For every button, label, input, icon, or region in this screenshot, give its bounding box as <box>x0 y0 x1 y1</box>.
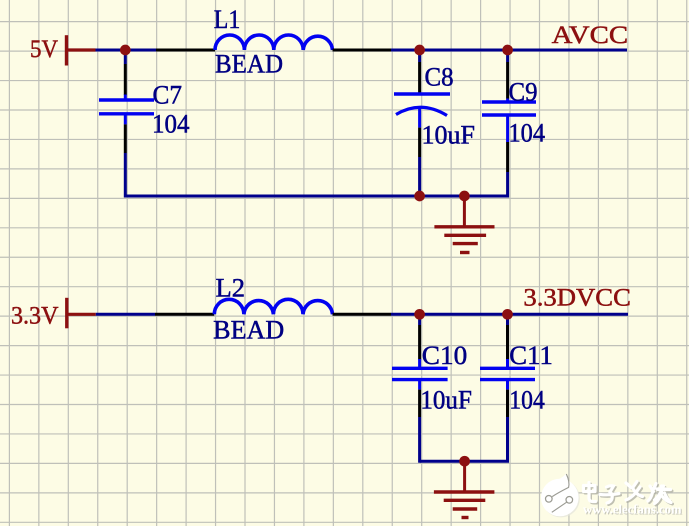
wire C9 to bottom rail <box>125 172 507 196</box>
power port 5V stub wire <box>67 48 96 51</box>
svg-text:C10: C10 <box>422 341 467 370</box>
capacitor C11 pin 1 <box>506 325 509 360</box>
capacitor C7 body <box>99 95 154 125</box>
node junction C8 tap <box>414 45 425 56</box>
wire 3.3V to L2 <box>96 313 155 316</box>
ground symbol (bottom) <box>434 461 495 517</box>
node junction C8 at ground rail <box>414 191 425 202</box>
inductor L1 pin 2 <box>333 49 392 52</box>
svg-text:104: 104 <box>509 385 545 414</box>
wire C8 to bottom rail <box>418 157 421 196</box>
capacitor C7 pin 1 <box>124 64 127 95</box>
power port 3.3V bar <box>65 298 68 329</box>
wire junction to C11 <box>506 314 509 325</box>
wire junction to C7 <box>124 50 127 64</box>
wire junction to C8 <box>418 50 421 62</box>
node junction C10 tap <box>414 309 425 320</box>
capacitor C9 body <box>482 99 536 143</box>
svg-text:10uF: 10uF <box>422 120 476 149</box>
capacitor C7 pin 2 <box>124 124 127 153</box>
capacitor C10 body <box>392 359 448 390</box>
wire C11 to bottom rail <box>420 417 508 461</box>
capacitor C8 pin 2 <box>418 128 421 157</box>
svg-text:L2: L2 <box>216 273 246 302</box>
watermark logo circle <box>541 474 580 518</box>
svg-text:104: 104 <box>509 118 546 147</box>
capacitor C9 pin 2 <box>506 142 509 172</box>
wire junction to C10 <box>418 314 421 325</box>
power port 3.3V stub wire <box>67 313 96 316</box>
capacitor C8 body (polarized) <box>394 94 450 128</box>
node junction C11 tap <box>502 309 513 320</box>
svg-text:5V: 5V <box>30 36 58 63</box>
svg-text:10uF: 10uF <box>420 385 472 414</box>
svg-text:BEAD: BEAD <box>215 50 283 79</box>
inductor L1 pin 1 <box>156 49 215 52</box>
node junction 5V/C7 tap <box>120 45 131 56</box>
svg-text:3.3DVCC: 3.3DVCC <box>523 285 631 312</box>
svg-text:www.elecfans.com: www.elecfans.com <box>583 503 682 517</box>
svg-text:C9: C9 <box>509 77 538 106</box>
inductor L2 pin 1 <box>155 313 214 316</box>
capacitor C9 pin 1 <box>506 62 509 99</box>
node junction ground tap at top rail <box>459 191 470 202</box>
capacitor C11 body <box>480 359 535 390</box>
capacitor C11 pin 2 <box>506 390 509 417</box>
ground symbol (top) <box>434 196 494 253</box>
capacitor C8 pin 1 <box>418 62 421 94</box>
svg-text:AVCC: AVCC <box>552 22 629 49</box>
power port 5V bar <box>65 35 68 65</box>
svg-text:C7: C7 <box>153 80 183 109</box>
capacitor C10 pin 1 <box>418 325 421 360</box>
svg-text:C8: C8 <box>425 62 454 91</box>
capacitor C10 pin 2 <box>418 390 421 417</box>
svg-text:C11: C11 <box>509 341 553 370</box>
inductor L2 body <box>214 299 332 314</box>
inductor L2 pin 2 <box>333 313 392 316</box>
node junction C9 tap <box>502 45 513 56</box>
svg-text:104: 104 <box>152 110 190 139</box>
wire junction to C9 <box>506 50 509 62</box>
svg-text:L1: L1 <box>214 5 241 34</box>
inductor L1 body <box>215 35 333 50</box>
wire L2 to 3.3DVCC <box>391 313 628 316</box>
watermark chinese text <box>585 483 673 505</box>
wire C7 to bottom rail <box>124 153 127 198</box>
svg-text:BEAD: BEAD <box>213 316 284 345</box>
wire L1 to AVCC <box>391 49 627 52</box>
wire 5V to L1 <box>96 49 157 52</box>
svg-text:3.3V: 3.3V <box>11 303 59 330</box>
node junction ground tap at bottom rail <box>459 456 470 467</box>
wire C10 to bottom rail <box>418 417 421 463</box>
